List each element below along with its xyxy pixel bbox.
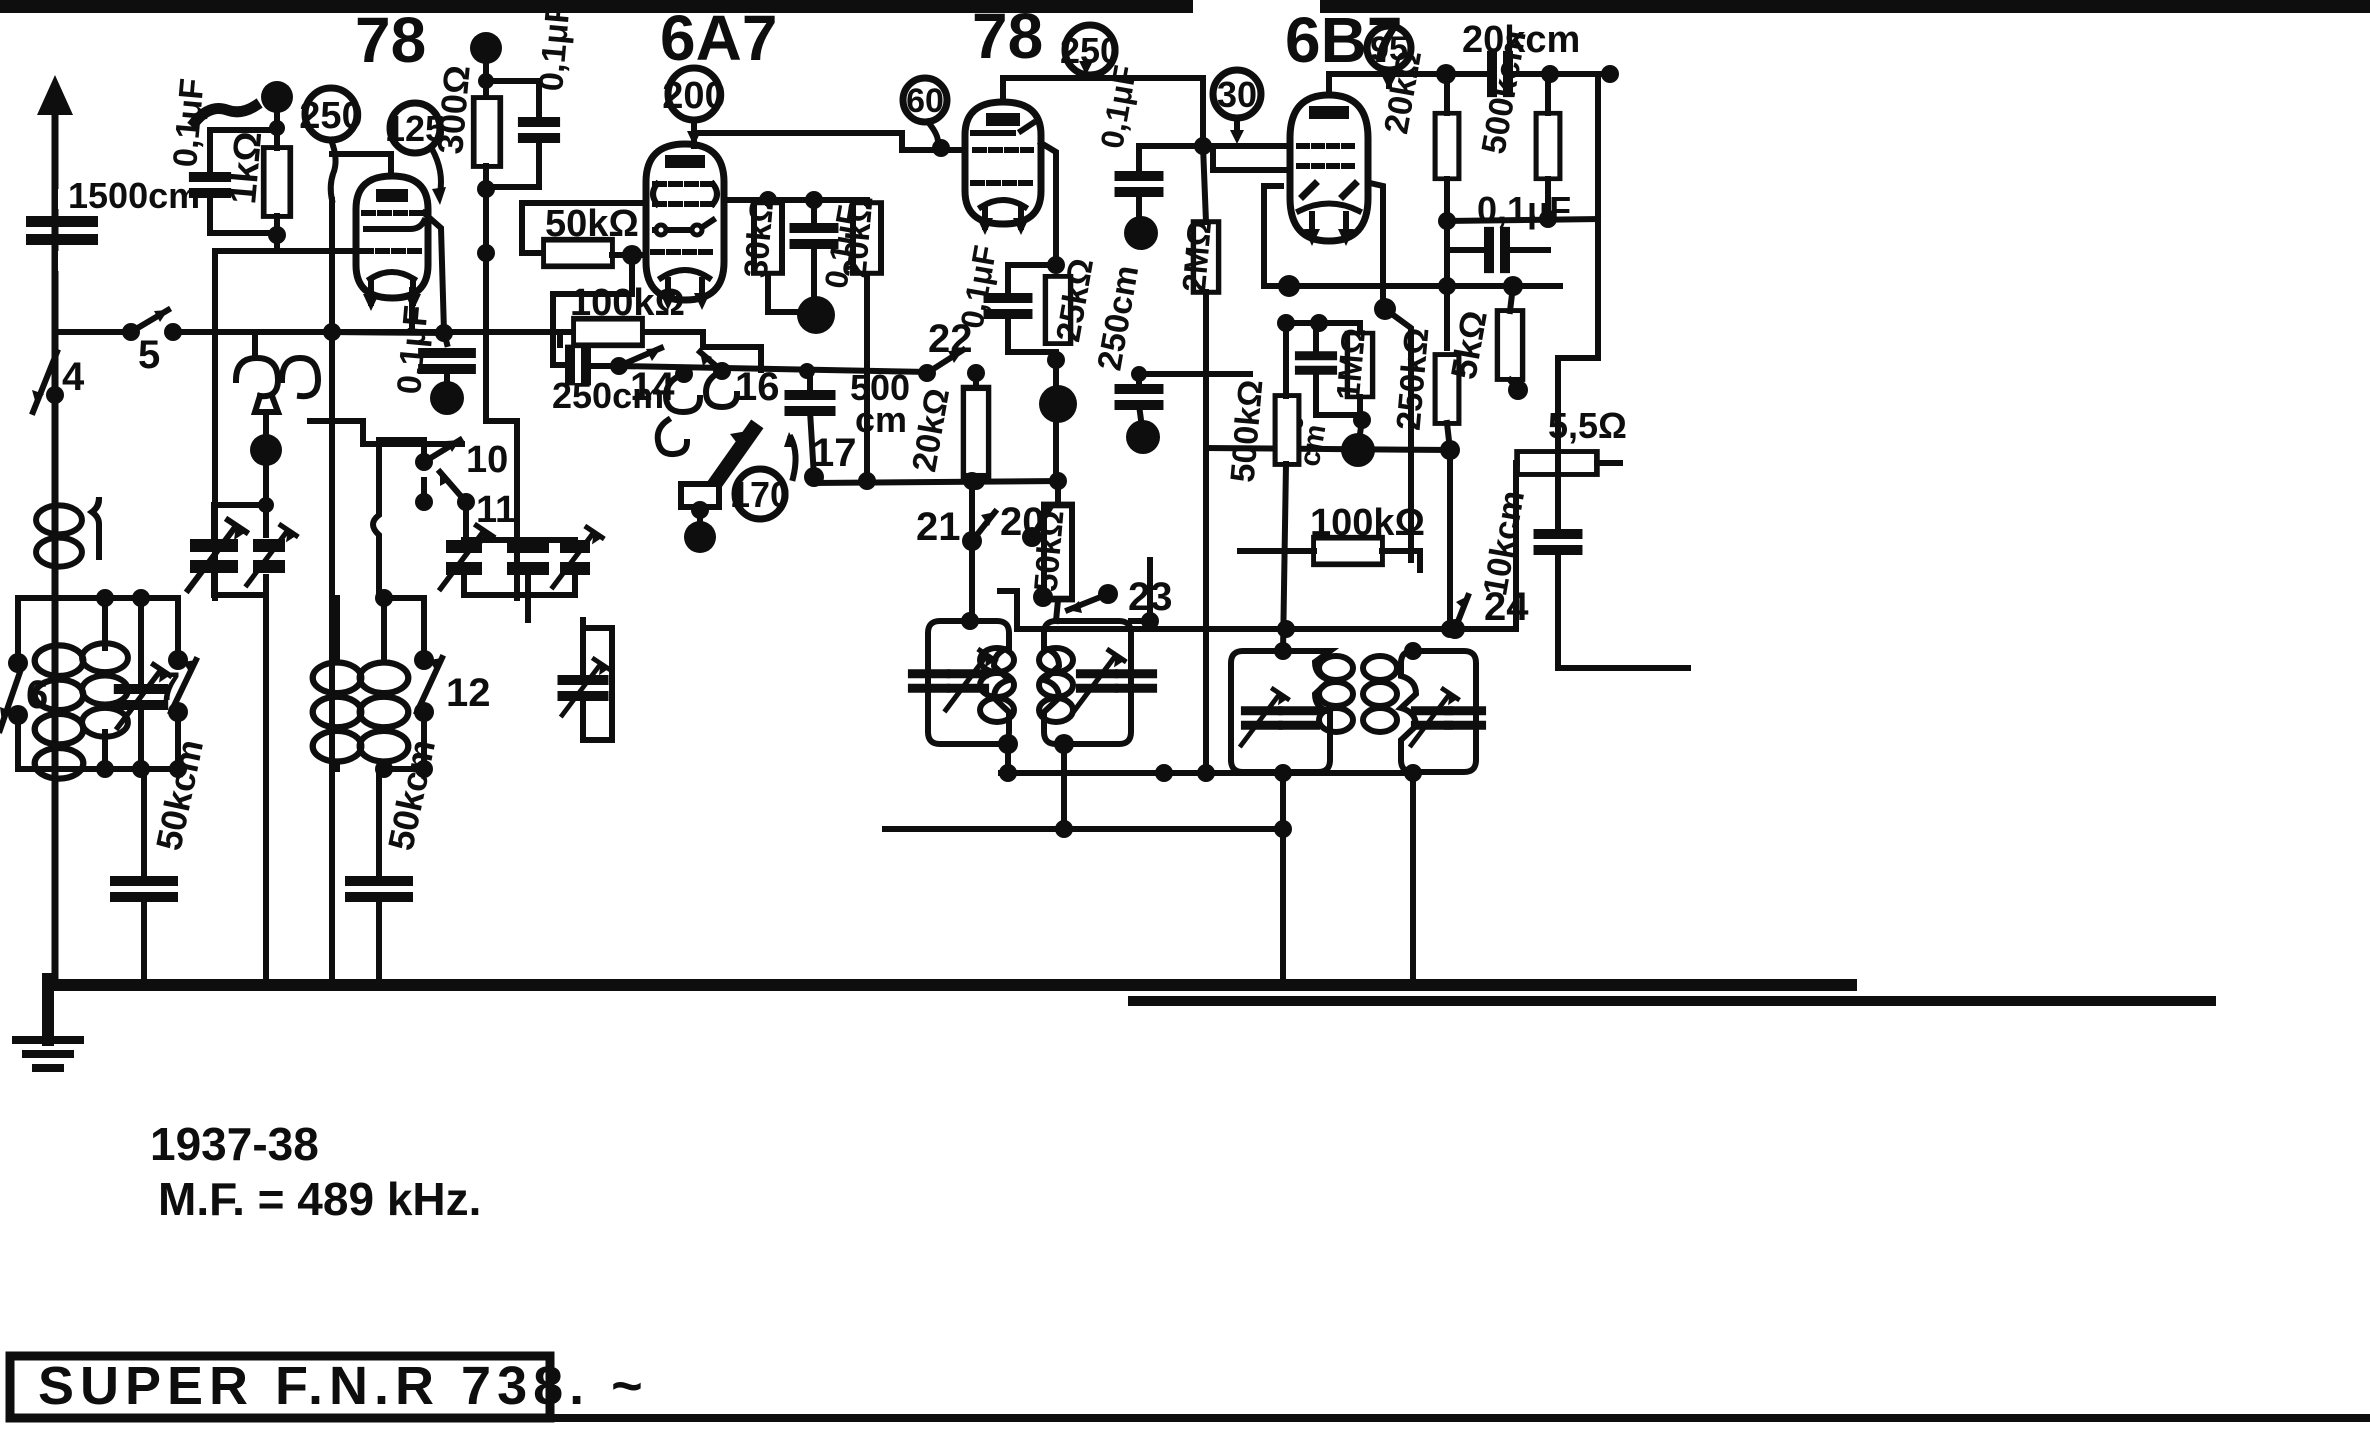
top border bar left [0,0,1193,13]
300 ohm screen feed resistor [470,32,502,64]
svg-text:30kΩ: 30kΩ [737,195,781,279]
AVC wire y480 [814,477,1058,483]
svg-text:6: 6 [26,673,48,717]
IFT1 right trimmer [1075,650,1124,710]
switch 10 [415,453,433,471]
AVC wire right of IFT1 [1250,770,1413,776]
resistor 500kcm [1536,113,1560,179]
tuning slug arrow [700,430,753,505]
svg-text:78: 78 [355,4,426,76]
screen bus wire y133 [694,133,965,150]
grid/cathode line down [1041,143,1058,621]
main ground bus [42,979,1857,991]
resistor 250k [1435,355,1459,424]
AVC bus y773 [1001,770,1250,776]
detector bus y286 [1289,283,1560,289]
resistor 5k [1497,311,1522,380]
switch 14 [619,348,661,366]
band II primary coil [313,663,362,762]
switch 23 [1033,587,1053,607]
squiggle antenna mark [195,106,255,122]
switch 20 [1022,527,1042,547]
svg-text:1500cm: 1500cm [68,175,200,216]
bottom border line [540,1414,2370,1422]
IFT1 left coil [980,648,1014,722]
svg-text:20kΩ: 20kΩ [836,195,880,279]
IFT2 right bottom lead [1410,772,1416,979]
svg-text:23: 23 [1128,575,1173,619]
svg-text:1937-38: 1937-38 [150,1118,319,1170]
svg-text:M.F. = 489 kHz.: M.F. = 489 kHz. [158,1173,481,1225]
gang 2 main cap [507,540,549,575]
node wire y332 [55,329,131,335]
cathode lead [409,290,415,332]
cathode resistor 25k [1045,276,1070,343]
IFT1 left box [928,621,1009,744]
svg-text:SUPER F.N.R 738. ~: SUPER F.N.R 738. ~ [38,1356,649,1416]
circled 95 [1367,26,1411,70]
ground symbol [16,979,80,1068]
gang 1 trimmer [253,539,285,573]
svg-text:12: 12 [446,671,491,715]
svg-text:20: 20 [1000,500,1045,544]
circled 30 [1213,70,1261,118]
wire from top bus down [1595,74,1601,358]
gang 2 trimmer [560,540,590,575]
anode top wire 6B7 [1329,74,1446,95]
svg-text:200: 200 [662,75,725,117]
svg-text:cm: cm [855,399,907,440]
svg-text:6A7: 6A7 [660,2,777,74]
band I primary coil upper [36,505,82,566]
IFT1 right fixed cap [1118,674,1154,688]
circled 250 top [1065,25,1115,75]
anode feed branch [332,154,391,176]
125 pointer arrow [432,149,441,193]
svg-text:1MΩ: 1MΩ [1329,326,1372,401]
resistor 20k anode load [1435,113,1459,179]
cap 500cm [788,395,832,411]
IFT2 right box [1401,651,1476,772]
circled 170 [735,469,785,519]
grid wire to band switch [215,251,356,598]
switch 5 blade [131,310,168,332]
switch 22 [918,364,936,382]
IFT2 left coil [1319,656,1353,732]
svg-text:30: 30 [1217,74,1257,115]
screen trio wire y200 [724,197,867,203]
circled 200 [668,68,720,120]
circled 125 [390,103,440,153]
osc coil M [675,365,693,383]
switch 10 wire [310,421,462,444]
antenna down-lead wire [52,95,59,982]
svg-text:170: 170 [730,474,790,515]
svg-text:10: 10 [466,439,508,481]
IFT2 left bottom lead [1280,772,1286,979]
cap 250cm [570,348,586,383]
capacitor 1500cm [26,189,98,271]
IFT1 right box [1044,621,1131,744]
tube 6B7 envelope [1290,95,1368,246]
grid wire into 6B7 [1203,143,1290,149]
svg-text:11: 11 [476,489,516,531]
resistor 30k boxed [754,203,782,274]
switch 6 [8,653,28,673]
switch 12 [414,650,434,670]
2M ohm resistor boxed [1194,137,1212,155]
IFT2 right caps [1411,689,1457,745]
top border bar right [1320,0,2370,13]
resistor 20k boxed [853,203,881,274]
svg-text:2MΩ: 2MΩ [1175,218,1218,293]
wire 250k line [1385,309,1411,560]
feed line from det [1513,463,1519,629]
B+ feed squiggle down [331,140,336,200]
svg-text:78: 78 [972,0,1043,72]
osc grid row exit [522,203,646,253]
IFT1 left bottom lead [998,734,1018,754]
AF bus y629 [1000,591,1516,629]
svg-text:4: 4 [62,355,85,399]
gang 1 tuning capacitor [190,539,238,573]
IFT1 right bottom lead [1054,734,1074,754]
svg-text:5: 5 [138,333,160,377]
svg-text:0,1μF: 0,1μF [1477,189,1571,230]
switch 16 [700,352,722,371]
primary loop wire [92,500,99,557]
screen bypass ground blob [430,381,464,415]
resistor 20k AVC [963,388,988,476]
cathode blob [1039,385,1077,423]
antenna arrow [37,75,73,115]
screen bypass blob [797,296,835,334]
tube 78 IF envelope [965,102,1041,235]
IFT2 left box [1231,651,1330,772]
gang2 loop wires [464,540,575,620]
switch 11 [415,493,433,511]
IFT1 left trimmer [946,650,995,710]
osc grid loop down [553,255,632,365]
diode loop around tube [1264,183,1383,309]
svg-text:300Ω: 300Ω [429,64,478,156]
junction dots band I [96,589,114,607]
trimmer cap band I [118,665,170,728]
osc top wire [619,366,927,372]
gang1 loop wires [214,466,266,982]
svg-text:21: 21 [916,505,961,549]
band I secondary coil [82,643,128,737]
svg-text:7: 7 [158,665,180,709]
svg-text:0,1μF: 0,1μF [166,77,212,169]
grid cap blob [261,81,293,113]
gang 2 tuning capacitor [446,540,482,575]
antenna input coil top [252,332,258,356]
IFT2 right coil [1363,656,1397,732]
switch 4 [46,386,64,404]
band I primary coil lower [35,645,84,778]
circled 60 [903,78,947,122]
band II right trimmer [561,659,608,715]
IFT1 right coil [1039,648,1073,722]
resistor 500k AVC [1275,396,1299,465]
switch 7 [168,650,188,670]
band II feed line [329,200,335,982]
svg-text:250: 250 [299,95,362,137]
cap 150cm + 1M diode load [1277,314,1295,332]
svg-text:60: 60 [906,82,944,120]
tube 6A7 envelope [646,144,724,310]
band II secondary coil [360,663,409,762]
IFT1 left fixed cap [911,674,947,688]
svg-text:16: 16 [735,365,780,409]
lower bus y829 [885,826,1283,832]
title box SUPER F.N.R 738 [10,1356,550,1418]
RC loop wires [210,128,277,248]
wire switch5 to 100k grid resistor [173,332,560,345]
osc grid line down [486,253,517,598]
tube 78 envelope [356,176,428,311]
circled 250 [305,88,357,140]
cap 0,1uF screen 6A7 [793,228,835,244]
band II coupling loop [373,440,379,598]
IFT2 left caps [1241,689,1287,745]
resistor 50k boxed on AVC line [1044,505,1072,599]
osc coil blob [684,521,716,553]
screen bypass line [424,213,447,344]
anode top wire [1003,78,1203,146]
wire sw6 loop [18,598,101,769]
node blob below input coil [250,434,282,466]
switch 21 [962,531,982,551]
